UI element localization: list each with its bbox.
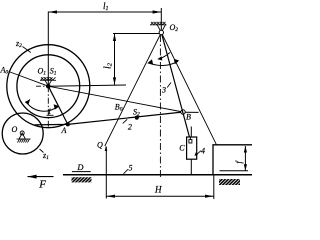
svg-text:D: D <box>76 162 84 172</box>
rocker extreme position right leg <box>161 33 216 145</box>
gear z1 circle <box>2 113 43 154</box>
stub from B to right leg <box>185 111 199 113</box>
O1 support hatched bar <box>40 77 56 80</box>
gear z2 outer circle <box>7 45 90 128</box>
svg-text:B: B <box>186 113 191 122</box>
ground hatch right <box>219 179 240 185</box>
gear z2 label leader <box>23 47 31 53</box>
gear z1 label leader <box>40 149 44 153</box>
dimension H right arrow <box>205 195 214 198</box>
gear z1 support triangle <box>19 133 25 139</box>
dimension l1 line <box>48 11 161 13</box>
rocker stub to pin C <box>189 137 191 140</box>
frame platform top right <box>213 145 252 175</box>
slider 4 block C <box>187 137 197 159</box>
construction line O1-B through B0 <box>48 86 183 112</box>
force F arrowhead <box>28 175 37 179</box>
O2 pin circle <box>159 30 163 34</box>
gear z2 inner circle <box>17 55 80 118</box>
frame ground line 5 <box>63 174 252 176</box>
S2 center of mass dot <box>135 116 139 120</box>
swing angle arc left arrowhead <box>147 59 153 65</box>
svg-text:3: 3 <box>161 86 166 95</box>
O1 horizontal dash-dot centerline <box>36 85 48 87</box>
small arc arrowhead <box>157 56 162 60</box>
dimension f bottom arrow <box>244 164 247 171</box>
point Q extension line <box>105 147 107 199</box>
O2 support hatched bar <box>150 22 167 25</box>
swing angle arc <box>148 61 178 65</box>
joint A dot <box>66 122 70 126</box>
rocker 3 line O2-B-C <box>161 33 191 143</box>
dimension l2 line <box>114 34 116 85</box>
svg-text:2: 2 <box>128 123 132 132</box>
svg-text:F: F <box>38 178 46 190</box>
O2 vertical extension from l1 <box>160 8 162 30</box>
svg-text:1: 1 <box>48 107 52 116</box>
point D underline <box>72 171 91 173</box>
rotation arc right arrowhead <box>54 104 60 109</box>
rotation arc left arrowhead <box>25 99 30 105</box>
ground hatch left <box>72 177 92 182</box>
swing angle arc right arrowhead <box>174 59 179 64</box>
svg-text:5: 5 <box>129 164 133 173</box>
dimension l2 bottom arrow <box>113 77 116 85</box>
l2 top extension line to O2 <box>113 33 161 35</box>
dimension H extension right <box>213 175 215 199</box>
dimension l1 left arrow <box>48 10 57 13</box>
dimension f extension line <box>220 170 249 172</box>
O1 pin dot <box>46 84 51 89</box>
joint B pin circle <box>181 110 185 114</box>
crank extreme position O1-A0 <box>9 72 49 87</box>
svg-text:A: A <box>61 126 67 135</box>
link 4 label leader arrow <box>196 151 202 156</box>
crank O1-A <box>48 86 68 124</box>
O1 vertical centerline lower dash-dot <box>47 86 49 128</box>
dimension f line <box>244 146 246 171</box>
link 3 label leader <box>167 83 171 88</box>
rocker extreme position left leg <box>105 33 162 147</box>
svg-text:O: O <box>12 125 18 134</box>
svg-text:4: 4 <box>201 147 205 156</box>
slider guide rod <box>190 127 192 175</box>
point Q arrowhead <box>105 146 108 151</box>
dimension f top arrow <box>244 146 247 153</box>
dimension l1 right arrow <box>153 10 162 13</box>
svg-text:H: H <box>154 185 162 195</box>
force F arrow line <box>28 176 54 178</box>
dimension H line <box>106 195 214 197</box>
O2 support triangle <box>157 25 165 33</box>
l2 bottom extension line from O1 <box>48 85 126 86</box>
extension line left (O1 vertical centerline top) <box>47 12 49 87</box>
rotation arc of link 1 around O1 <box>26 101 57 111</box>
joint C pin square <box>189 140 192 144</box>
dimension H left arrow <box>106 195 115 198</box>
gear z1 pin circle <box>20 131 24 135</box>
dimension l2 top arrow <box>113 34 116 42</box>
frame label 5 leader <box>123 169 128 174</box>
coupler 2 line A-B <box>35 112 184 125</box>
link 2 label leader <box>123 119 128 123</box>
rotation direction small arc arrow at O2 <box>160 53 171 59</box>
O2 vertical dash-dot centerline <box>159 35 161 179</box>
O1 support legs <box>45 80 52 86</box>
gear z1 support hatched bar <box>17 139 31 143</box>
svg-text:Q: Q <box>97 141 103 150</box>
svg-text:C: C <box>179 143 185 152</box>
link 1 label underline <box>47 114 54 116</box>
